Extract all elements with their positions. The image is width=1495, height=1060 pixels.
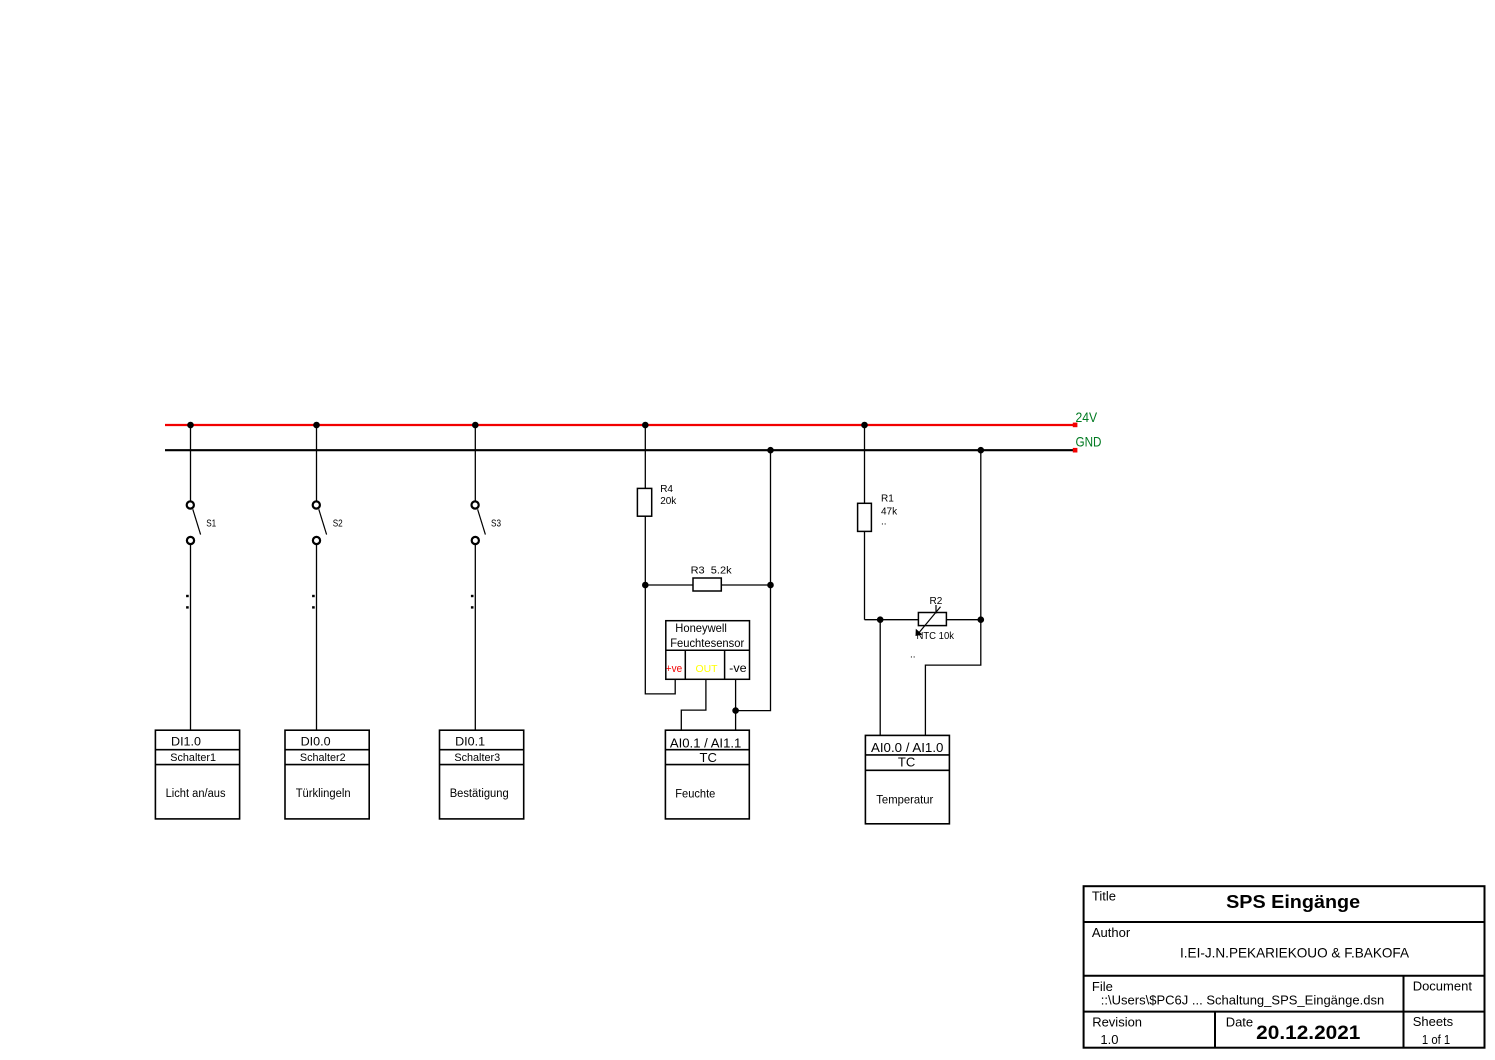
terminal block DI1.0 Schalter1 (155, 730, 239, 819)
junction node on 24V at R4 (642, 422, 649, 429)
svg-text:Schalter3: Schalter3 (454, 752, 500, 764)
svg-text:SPS Eingänge: SPS Eingänge (1226, 892, 1360, 912)
svg-text:DI0.1: DI0.1 (455, 735, 485, 749)
switch S3 (471, 425, 501, 730)
title block Author cell (1092, 925, 1410, 961)
junction node on GND at Feuchte branch (767, 447, 774, 454)
terminal block DI0.1 Schalter3 (440, 730, 524, 819)
svg-text:DI0.0: DI0.0 (301, 735, 331, 749)
svg-text:::\Users\$PC6J ... Schaltung_S: ::\Users\$PC6J ... Schaltung_SPS_Eingäng… (1101, 993, 1384, 1008)
wire GND drop to Temperatur box (925, 450, 980, 735)
title block frame (1084, 886, 1485, 1047)
node R4/R3 junction (642, 582, 649, 589)
svg-text:S3: S3 (491, 519, 501, 530)
svg-text:..: .. (881, 517, 887, 528)
svg-text:20.12.2021: 20.12.2021 (1256, 1023, 1361, 1044)
port terminal GND (1073, 448, 1078, 453)
wire R2 node down to AI0.0 (879, 620, 881, 736)
svg-text:GND: GND (1076, 434, 1102, 450)
svg-text:Date: Date (1226, 1015, 1253, 1030)
wire OUT pin to AI0.1 (681, 679, 706, 730)
switch S1 (186, 425, 216, 730)
svg-text:TC: TC (898, 755, 915, 770)
svg-text:..: .. (910, 650, 916, 661)
resistor R4 (637, 425, 677, 585)
svg-text:Temperatur: Temperatur (876, 792, 933, 806)
node -ve junction (732, 707, 739, 714)
svg-text:R1: R1 (881, 493, 894, 504)
svg-text:R4: R4 (660, 484, 673, 495)
svg-text:20k: 20k (660, 496, 677, 507)
wire R3 node down to +ve (645, 585, 675, 694)
title block Sheets cell (1413, 1014, 1454, 1047)
svg-text:Honeywell: Honeywell (675, 621, 727, 635)
node R2 left junction (877, 616, 884, 623)
wire R2 to right branch (946, 619, 980, 621)
svg-text:Schalter2: Schalter2 (300, 752, 346, 764)
svg-text:Revision: Revision (1092, 1015, 1142, 1030)
svg-text:AI0.1 / AI1.1: AI0.1 / AI1.1 (670, 736, 741, 751)
svg-text:OUT: OUT (696, 664, 718, 675)
thermistor R2 NTC 10k (910, 596, 955, 660)
node R3 right junction (767, 582, 774, 589)
junction node on 24V at S1 (187, 422, 194, 429)
terminal block AI0.0 / AI1.0 TC (865, 735, 949, 823)
svg-text:1 of 1: 1 of 1 (1422, 1032, 1450, 1047)
svg-text:Feuchtesensor: Feuchtesensor (670, 636, 744, 650)
svg-text:Feuchte: Feuchte (675, 786, 715, 800)
svg-text:R2: R2 (930, 596, 943, 607)
wire R1 to R2 (865, 619, 919, 621)
svg-text:NTC 10k: NTC 10k (917, 631, 955, 642)
svg-text:AI0.0 / AI1.0: AI0.0 / AI1.0 (871, 740, 943, 755)
svg-text:1.0: 1.0 (1100, 1032, 1118, 1047)
junction node on 24V at S2 (313, 422, 320, 429)
junction node on 24V at S3 (472, 422, 479, 429)
svg-text:DI1.0: DI1.0 (171, 735, 201, 749)
svg-text:Schalter1: Schalter1 (170, 752, 216, 764)
svg-text:S2: S2 (333, 519, 343, 530)
junction node on 24V at R1 (861, 422, 868, 429)
switch S2 (312, 425, 343, 730)
svg-text:24V: 24V (1076, 409, 1098, 425)
svg-text:R3 5.2k: R3 5.2k (691, 566, 733, 577)
title block Revision cell (1092, 1015, 1142, 1048)
sensor U1 Honeywell Feuchtesensor (666, 621, 750, 680)
title block File cell (1092, 979, 1384, 1008)
wire GND rail (165, 449, 1075, 451)
title block Date cell (1226, 1015, 1361, 1044)
title block Title cell (1092, 888, 1360, 912)
svg-text:-ve: -ve (729, 663, 747, 675)
svg-text:S1: S1 (206, 519, 216, 530)
resistor R3 (645, 566, 770, 591)
svg-text:Author: Author (1092, 925, 1131, 940)
terminal block AI0.1 / AI1.1 TC (665, 730, 749, 819)
svg-text:Title: Title (1092, 888, 1116, 903)
svg-text:TC: TC (700, 750, 717, 765)
node R2 right junction (978, 616, 985, 623)
svg-text:Document: Document (1413, 978, 1473, 993)
svg-text:Sheets: Sheets (1413, 1014, 1454, 1029)
wire GND drop to -ve (736, 450, 771, 710)
svg-text:I.EI-J.N.PEKARIEKOUO & F.BAKOF: I.EI-J.N.PEKARIEKOUO & F.BAKOFA (1180, 945, 1410, 961)
title block Document cell (1413, 978, 1473, 993)
svg-text:+ve: +ve (666, 663, 682, 675)
port terminal 24V (1073, 423, 1078, 428)
resistor R1 (858, 425, 899, 620)
wire -ve pin to AI0.1 (735, 679, 737, 730)
svg-text:Licht an/aus: Licht an/aus (166, 788, 226, 800)
terminal block DI0.0 Schalter2 (285, 730, 369, 819)
junction node on GND at Temperatur branch (978, 447, 985, 454)
wire 24V rail (165, 424, 1075, 426)
svg-text:Türklingeln: Türklingeln (296, 788, 351, 800)
svg-text:Bestätigung: Bestätigung (450, 788, 509, 800)
